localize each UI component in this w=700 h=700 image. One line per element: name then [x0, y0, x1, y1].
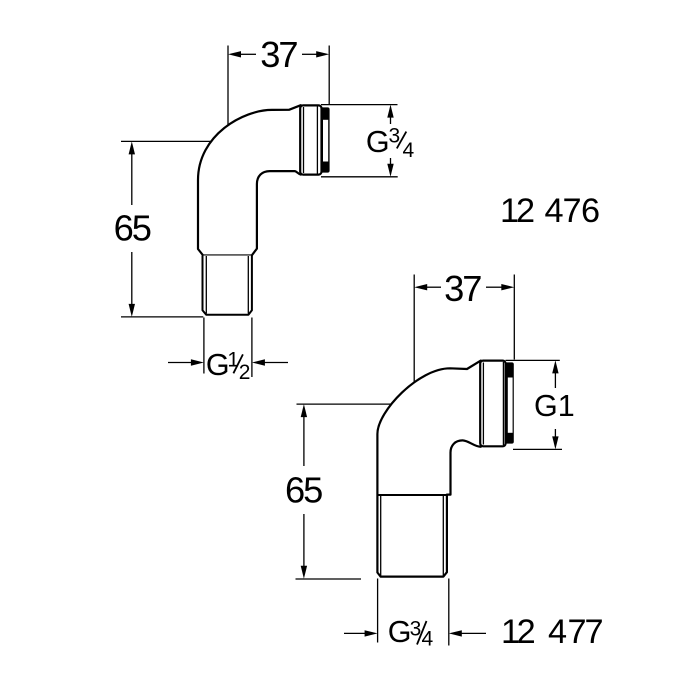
arrowhead G1/2 left 1: [191, 359, 204, 365]
svg-text:65: 65: [114, 208, 151, 249]
arrowhead G3/4 down 1: [387, 164, 393, 177]
svg-text:7: 7: [584, 613, 603, 651]
svg-text:G: G: [206, 348, 230, 382]
dim 37 line left 2: [426, 286, 441, 288]
svg-text:G: G: [388, 615, 412, 649]
dim G1 vertical upper 2: [554, 372, 556, 388]
dim G3/4 top ext line 1: [321, 104, 398, 106]
thread root line left stub2: [380, 496, 382, 576]
svg-text:7: 7: [562, 192, 581, 230]
dim G1 top ext line 2: [506, 359, 560, 361]
dim 37 ext line left (pipe axis) 1: [227, 46, 229, 125]
elbow body 12 477: [377, 361, 480, 577]
dim G1/2 ext line left 1: [203, 318, 205, 374]
dim 65 vertical upper 2: [303, 416, 305, 466]
dim G3/4 line left 2: [344, 632, 366, 634]
threaded stub G1/2 12 476: [203, 256, 252, 315]
collar inner line right 1: [316, 107, 318, 174]
dim 37 ext line right 2: [513, 275, 515, 360]
thread root line right stub2: [442, 496, 444, 576]
dim 65 vertical line lower 1: [131, 252, 133, 305]
arrowhead G1 up 2: [552, 360, 558, 373]
union collar 12 477: [480, 361, 505, 447]
dim 37 line right 2: [486, 286, 502, 288]
dim 65 top ext line 1: [121, 140, 212, 142]
dim 65 bottom ext line 2: [296, 578, 362, 580]
collar inner line left 1: [303, 107, 305, 173]
svg-text:6: 6: [581, 192, 600, 230]
svg-text:37: 37: [260, 34, 297, 75]
arrowhead G1 down 2: [552, 436, 558, 449]
dim 37 ext line right 1: [328, 46, 330, 105]
collar inner line right 2: [502, 362, 504, 445]
svg-text:4: 4: [403, 139, 415, 162]
seal band (black) 1: [321, 107, 330, 172]
dim G3/4 bottom ext line 1: [321, 176, 398, 178]
dim G1 bottom ext line 2: [513, 448, 562, 450]
arrowhead 37 left 2: [414, 284, 427, 290]
dim G3/4 vertical upper 1: [390, 116, 392, 124]
dim G3/4 ext line right 2: [448, 579, 450, 646]
arrowhead G3/4 up 1: [387, 105, 393, 118]
dim 37 line right w arrow 1: [302, 53, 317, 55]
dim 65 vertical lower 2: [303, 514, 305, 566]
svg-text:1: 1: [227, 348, 239, 371]
thread root line right stub1: [247, 256, 249, 314]
union collar 12 476: [300, 105, 321, 174]
svg-text:2: 2: [239, 361, 251, 384]
seal band slot (white) 2: [508, 378, 513, 433]
dim G3/4 line right 2: [461, 632, 487, 634]
arrowhead 65 up 2: [301, 404, 307, 417]
seal band slot (white) 1: [323, 120, 328, 162]
svg-text:2: 2: [517, 613, 536, 651]
arrowhead 37 right 2: [501, 284, 514, 290]
svg-text:4: 4: [422, 628, 434, 651]
svg-text:4: 4: [544, 192, 563, 230]
dim G3/4 vertical lower 1: [390, 158, 392, 166]
dim G3/4 ext line left 2: [377, 579, 379, 643]
thread start line stub 2: [377, 494, 447, 496]
arrowhead G1/2 right 1: [252, 359, 265, 365]
dim G1/2 line left 1: [168, 362, 192, 364]
svg-text:4: 4: [548, 613, 567, 651]
arrowhead 65 down 1: [129, 304, 135, 317]
arrowhead G3/4 left 2: [365, 630, 378, 636]
dim 37 line left w arrow 1: [240, 53, 256, 55]
arrowhead 65 up 1: [129, 141, 135, 154]
svg-text:37: 37: [444, 268, 481, 309]
svg-text:65: 65: [285, 469, 322, 510]
dim G1/2 line right 1: [264, 362, 288, 364]
thread root line left stub1: [205, 256, 207, 314]
dim G1 vertical lower 2: [554, 429, 556, 437]
arrowhead 37 left 1: [228, 51, 241, 57]
collar inner line left 2: [482, 363, 484, 445]
svg-text:2: 2: [516, 192, 535, 230]
dimensions for 12 477: [296, 275, 563, 646]
svg-text:G: G: [366, 125, 390, 159]
svg-text:G1: G1: [534, 389, 575, 423]
dim 65 vertical line upper 1: [131, 153, 133, 205]
dim 37 ext line left 2: [413, 275, 415, 383]
elbow body 12 476: [198, 105, 301, 255]
dim 65 top ext line 2: [297, 403, 392, 405]
dimensions for 12 476: [121, 46, 398, 378]
seal band (black) 2: [505, 362, 514, 443]
dim 65 bottom ext line 1: [121, 316, 203, 318]
arrowhead G3/4 right 2: [449, 630, 462, 636]
arrowhead 37 right 1: [316, 51, 329, 57]
arrowhead 65 down 2: [301, 566, 307, 579]
dim G1/2 ext line right 1: [251, 318, 253, 378]
